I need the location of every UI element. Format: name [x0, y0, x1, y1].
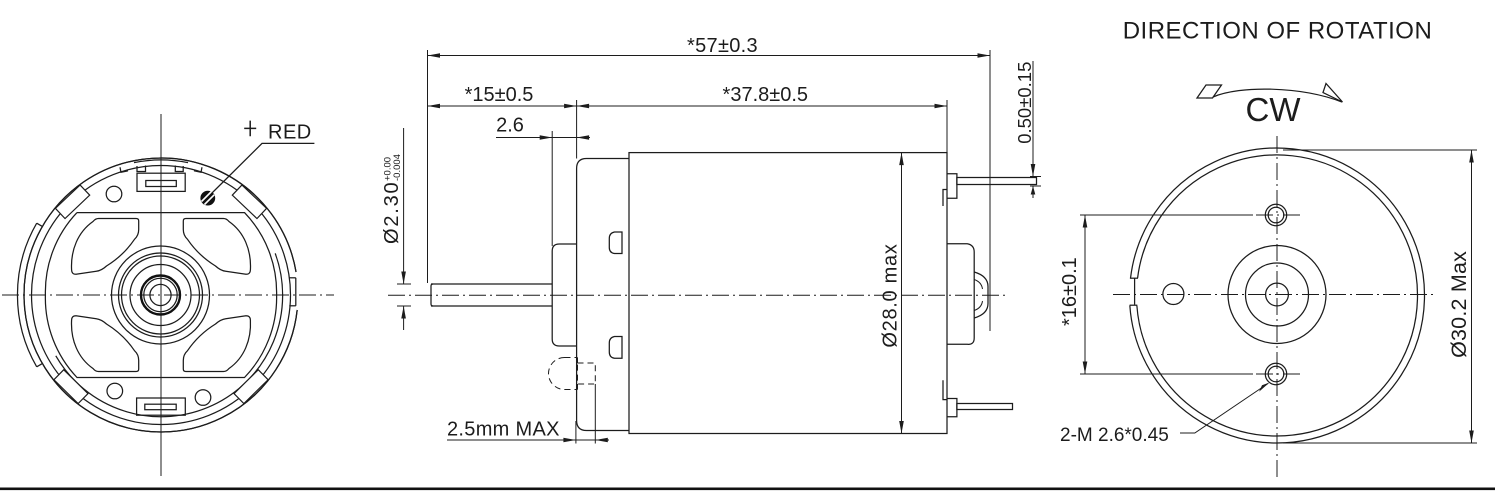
- hidden pilot dashed arc: [549, 358, 565, 390]
- dim dia28 arrow top: [899, 153, 904, 166]
- rear cap bump: [974, 272, 988, 318]
- motor main body rectangle: [629, 153, 947, 434]
- front outer circle: [24, 158, 297, 432]
- dim 0.50 arrow down: [1031, 164, 1036, 177]
- hole top-left: [106, 186, 122, 202]
- rim tab diag LL: [54, 370, 88, 404]
- left ear step bottom: [37, 364, 42, 367]
- bottom terminal slot inner: [145, 404, 176, 410]
- dim *15 arrow right: [564, 104, 577, 109]
- dim *37.8 arrow left: [577, 104, 590, 109]
- side hole: [1163, 284, 1184, 305]
- rotation arrowhead: [1323, 84, 1343, 103]
- dim 2.6 arrow left outside: [540, 135, 553, 140]
- dim 16 arrow top: [1083, 215, 1088, 228]
- dim 2.5mm line: [447, 439, 609, 441]
- dim dia28 line: [901, 153, 903, 434]
- dim 30.2 arrow top: [1469, 150, 1474, 163]
- vent D-hole bottom: [609, 337, 622, 359]
- terminal tab bottom: [947, 399, 957, 417]
- dim 0.50 arrow up: [1031, 186, 1036, 195]
- svg-text:Ø28.0 max: Ø28.0 max: [880, 243, 902, 347]
- dim dia2.30 tick top: [397, 283, 411, 285]
- svg-text:DIRECTION OF ROTATION: DIRECTION OF ROTATION: [1123, 17, 1433, 44]
- rim step stub far-right: [194, 167, 202, 172]
- screw hole bottom inner: [1268, 366, 1284, 382]
- svg-text:2.5mm MAX: 2.5mm MAX: [447, 419, 560, 441]
- dim *15 arrow left: [428, 104, 441, 109]
- left ear arc: [17, 223, 36, 367]
- rear notch step top: [1130, 277, 1138, 279]
- hidden pilot dashed stubs: [565, 358, 578, 390]
- dim *37.8 extension right: [946, 100, 948, 152]
- dim 30.2 ext bottom: [1283, 442, 1477, 444]
- svg-text:0.50±0.15: 0.50±0.15: [1014, 62, 1035, 144]
- right flat step top: [289, 277, 296, 279]
- dim 16 ext top: [1080, 214, 1253, 216]
- svg-text:2.6: 2.6: [496, 115, 524, 137]
- rear inner circle: [1137, 155, 1418, 436]
- dim 0.50 line lower: [1032, 186, 1034, 198]
- dim dia2.30 text: [381, 154, 403, 244]
- dim *37.8 line: [577, 105, 947, 107]
- dim 2.6 line: [496, 137, 590, 139]
- dim *37.8 arrow right: [935, 104, 948, 109]
- terminal blade top: [957, 178, 1037, 185]
- shaft top line: [431, 283, 552, 285]
- screw hole top inner: [1268, 207, 1284, 223]
- bearing boss bold ring: [141, 276, 180, 315]
- center ring r49: [112, 246, 210, 344]
- vent D-hole top: [609, 232, 622, 254]
- svg-text:RED: RED: [268, 122, 312, 144]
- rear cap bump inner contour bottom: [974, 301, 982, 311]
- red marking dot: [200, 191, 215, 206]
- svg-text:2-M 2.6*0.45: 2-M 2.6*0.45: [1060, 425, 1169, 446]
- screw hole top outer: [1265, 204, 1286, 225]
- can notch top: [943, 190, 947, 207]
- dim 16 arrow bottom: [1083, 362, 1088, 375]
- dim 2.5mm arrow left outside: [563, 438, 576, 443]
- top terminal slot outer: [137, 173, 185, 191]
- front third ring partial arc: [56, 253, 283, 416]
- screw hole bottom tick: [1256, 373, 1300, 375]
- rotation arrow tail parallelogram: [1197, 85, 1222, 98]
- bottom terminal slot outer: [137, 398, 186, 415]
- rim tab diag UL: [55, 185, 89, 219]
- rear left notch flat: [1134, 278, 1136, 304]
- screw label leader: [1180, 384, 1268, 434]
- rim tab diag UR: [232, 185, 266, 219]
- dim dia2.30 tick bottom: [397, 305, 411, 307]
- rear outer circle: [1130, 148, 1425, 443]
- right flat step bottom: [289, 305, 296, 307]
- dim 30.2 line: [1471, 150, 1473, 443]
- dim 0.50 ticks: [1030, 177, 1041, 187]
- front bearing boss: [552, 244, 576, 346]
- front cover: [577, 159, 629, 431]
- right flat: [295, 278, 297, 306]
- front view vertical centerline: [160, 114, 162, 476]
- window pentagon upper-right: [183, 219, 250, 275]
- shaft hole: [150, 284, 171, 305]
- rim tab diag LR: [234, 370, 268, 404]
- dim 0.50 line upper: [1032, 61, 1034, 177]
- dim *57 arrow right: [978, 53, 991, 58]
- dim 2.5mm ext line right: [594, 384, 596, 444]
- rear cap bump inner contour top: [974, 280, 982, 290]
- rim notch box right: [175, 166, 183, 172]
- dim dia2.30 arrow lower: [401, 306, 406, 319]
- rotation arc: [1213, 89, 1342, 102]
- window pentagon lower-left: [71, 316, 138, 372]
- rear shaft hole: [1266, 283, 1289, 306]
- left ear step top: [37, 223, 42, 226]
- center ring r42: [119, 253, 203, 337]
- hidden pilot dashed rect: [578, 363, 596, 384]
- FRONT-VIEW: [2, 114, 334, 476]
- rim top band arc: [134, 160, 188, 163]
- dim *57 arrow left: [428, 53, 441, 58]
- svg-text:-0.004: -0.004: [392, 154, 403, 181]
- can notch bottom: [943, 380, 947, 399]
- dim dia2.30 line lower: [403, 306, 405, 330]
- dim 2.6 arrow right outside: [577, 135, 590, 140]
- leader line to RED: [212, 143, 314, 193]
- front inner ring: [32, 166, 291, 425]
- dim 2.6 extension: [551, 131, 553, 246]
- center ring r39: [122, 256, 200, 334]
- hole bottom-right: [195, 390, 211, 406]
- dim 2.5mm ext line left: [575, 421, 577, 444]
- center ring r30.5: [130, 265, 191, 326]
- svg-text:CW: CW: [1246, 91, 1302, 128]
- front outer circle redrawn over tabs: [24, 158, 297, 432]
- rear notch step bottom: [1130, 304, 1138, 306]
- dim 16 ext bottom: [1080, 373, 1253, 375]
- front view horizontal centerline: [2, 294, 334, 296]
- dim *15 line: [428, 105, 577, 107]
- terminal tab top: [947, 174, 957, 199]
- dim 0.50 text: [1014, 62, 1035, 144]
- bearing ring r16.7: [144, 278, 177, 311]
- side view horizontal centerline: [388, 294, 1008, 296]
- SIDE-VIEW: [381, 35, 1041, 444]
- svg-text:*57±0.3: *57±0.3: [687, 35, 758, 57]
- window pentagon upper-left: [71, 219, 138, 275]
- rear boss outer: [1228, 246, 1326, 344]
- dim 30.2 arrow bottom: [1469, 431, 1474, 444]
- shaft bottom line: [431, 305, 552, 307]
- screw hole top tick: [1256, 214, 1300, 216]
- rear vertical centerline: [1276, 136, 1278, 479]
- dim *57 extension right: [989, 50, 991, 331]
- dim *57 line: [428, 55, 991, 57]
- dim dia28 arrow bottom: [899, 421, 904, 434]
- dim 16 line: [1084, 215, 1086, 374]
- rear horizontal centerline: [1113, 294, 1437, 296]
- svg-text:Ø2.30: Ø2.30: [381, 181, 403, 244]
- dim dia28 text: [880, 243, 902, 347]
- dim 37.8 ext front face above: [576, 100, 578, 159]
- plus symbol: [244, 121, 256, 137]
- dim 30.2 ext top: [1283, 149, 1477, 151]
- terminal blade bottom: [957, 404, 1013, 410]
- svg-text:*15±0.5: *15±0.5: [465, 84, 534, 106]
- dim 16 text: [1059, 257, 1081, 326]
- dim dia2.30 arrow upper: [401, 272, 406, 285]
- dim 2.5mm arrow right outside: [595, 438, 608, 443]
- rim step stub far-left: [120, 167, 128, 172]
- REAR-VIEW: [1059, 17, 1477, 479]
- recess boundary: [45, 213, 276, 378]
- screw hole bottom outer: [1265, 363, 1286, 384]
- hole bottom-left: [107, 383, 123, 399]
- dim *57 extension left: [427, 50, 429, 283]
- top terminal slot inner: [146, 181, 177, 187]
- rear boss middle: [1246, 263, 1309, 326]
- border bottom line: [0, 488, 1495, 491]
- svg-text:*16±0.1: *16±0.1: [1059, 257, 1081, 326]
- window pentagon lower-right: [183, 316, 250, 372]
- dim 30.2 text: [1447, 251, 1471, 358]
- svg-text:Ø30.2 Max: Ø30.2 Max: [1447, 251, 1471, 358]
- shaft end cap: [431, 284, 433, 306]
- svg-text:*37.8±0.5: *37.8±0.5: [723, 84, 809, 106]
- screw label leader arrow: [1259, 383, 1270, 392]
- rim notch box left: [137, 166, 146, 172]
- rear cap shoulder top: [947, 244, 974, 345]
- dim dia2.30 line upper: [403, 128, 405, 284]
